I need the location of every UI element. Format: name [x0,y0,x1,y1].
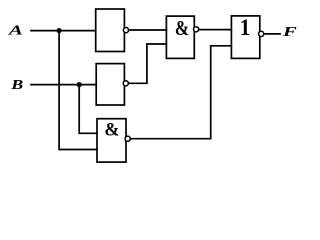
inverter G1 box [96,9,125,52]
node A junction [57,28,62,33]
nand G3 output bubble [194,27,199,32]
node B junction [77,82,82,87]
nand G5 output bubble [125,136,130,141]
svg-text:F: F [282,23,297,39]
svg-text:1: 1 [240,14,251,40]
inverter G1 output bubble [123,28,128,33]
nand G3 box [166,16,194,58]
wire G1 output to G3 input A [129,29,167,31]
wire A input [31,30,96,32]
inverter G2 box [96,64,124,105]
svg-text:B: B [10,78,24,93]
svg-text:&: & [175,17,189,40]
nor G4 output bubble [259,31,264,36]
wire G3 output to G4 input A [199,29,232,31]
svg-text:&: & [104,119,119,141]
nand G5 box [97,119,126,162]
nor G4 box [231,16,259,59]
wire G4 output to F [264,33,280,35]
inverter G2 output bubble [123,81,128,86]
wire G2 output to G3 input B [128,44,166,83]
wire G5 output to G4 input B [130,46,231,139]
svg-text:A: A [8,22,23,38]
wire B branch to G5 upper input [79,85,97,134]
wire A branch to G5 lower input [59,31,97,150]
wire B input [31,84,96,86]
